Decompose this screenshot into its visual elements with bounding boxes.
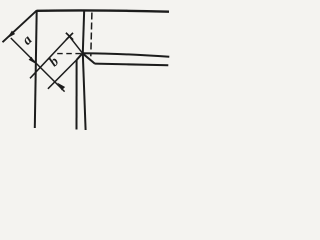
dashed vertical line (91, 13, 92, 57)
left vertical plate edge V1 (35, 10, 37, 128)
paper background (0, 0, 172, 140)
top horizontal plate edge H1 (37, 10, 169, 11)
dimension line T (11, 38, 65, 92)
arrowhead 2 at V1 crossing (29, 57, 36, 64)
bevel of horizontal sheet (83, 53, 95, 63)
arrowhead 1 on D1 (7, 31, 15, 39)
horizontal sheet top face H2 (83, 53, 170, 57)
construction diagonal S2 continuation (48, 60, 77, 89)
right vertical plate edge V2 (83, 10, 86, 130)
vertical sheet left face V3 (76, 60, 78, 130)
horizontal sheet bottom face H3 (95, 64, 169, 66)
arrowhead 3 at S2 crossing (57, 83, 65, 91)
line from x-mark to junction (69, 36, 82, 53)
corner diagonal D1 with dimension arrow (3, 10, 37, 42)
dashed horizontal line (57, 53, 82, 55)
x mark (66, 33, 73, 40)
bevel of vertical sheet (77, 53, 83, 60)
cut line S1 from x-mark (30, 36, 69, 78)
